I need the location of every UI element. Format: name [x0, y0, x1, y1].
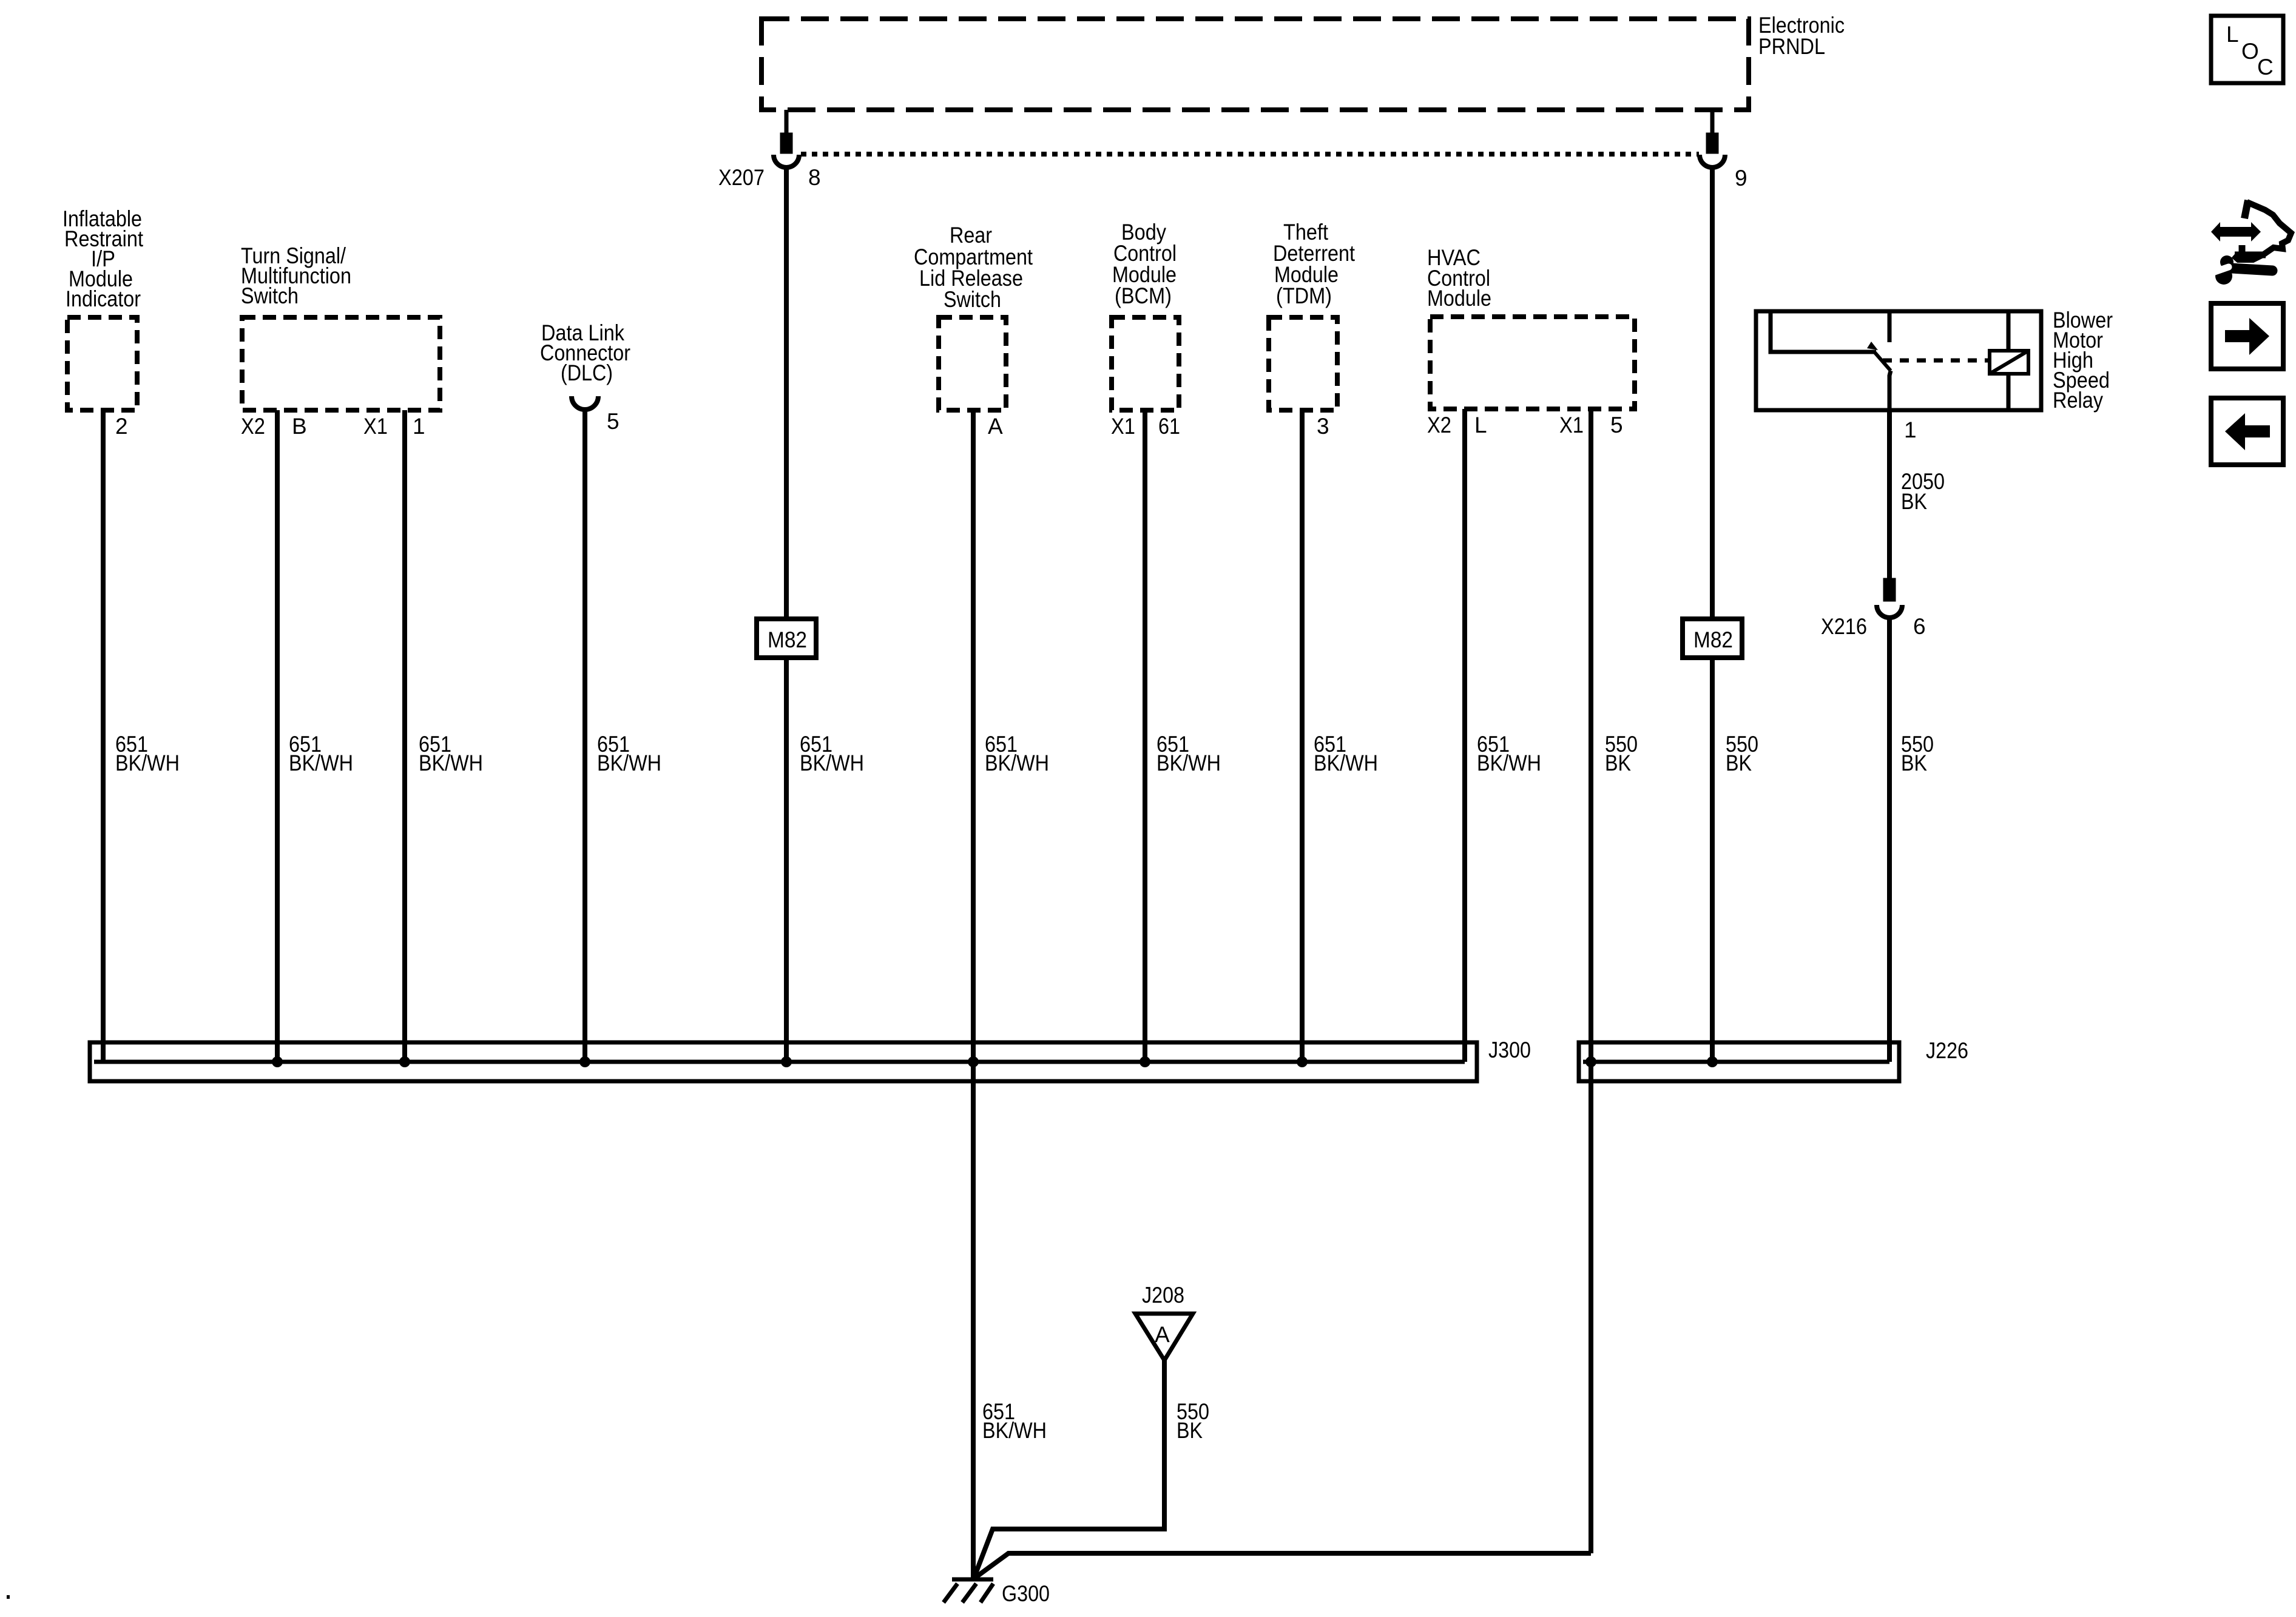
wire PRNDL pin 8 stub: [785, 110, 789, 136]
svg-text:BK/WH: BK/WH: [1477, 751, 1541, 775]
DLC female terminal arc: [572, 396, 598, 410]
wire Rear Compartment pin A down through J300 to G300: [971, 410, 976, 1578]
female terminal pin 9 arc: [1700, 155, 1725, 167]
relay switch blade: [1874, 352, 1891, 371]
wire TDM pin 3 to J300: [1300, 410, 1305, 1062]
svg-text:6: 6: [1913, 614, 1926, 639]
ground splice J208 triangle: [1135, 1314, 1193, 1360]
male terminal pin 8: [782, 135, 791, 152]
svg-text:J208: J208: [1142, 1283, 1184, 1308]
grommet M82 on X207-8 wire: [757, 619, 816, 658]
diagnostic icon lower bar: [2239, 245, 2246, 254]
splice pack J226 box: [1579, 1042, 1899, 1081]
legend box with left arrow: [2211, 398, 2283, 465]
wire 550 BK from PRNDL-9 down to J226: [1710, 167, 1715, 1062]
J300 internal bus line: [94, 1060, 1465, 1064]
svg-text:PRNDL: PRNDL: [1758, 34, 1825, 59]
wire 550 BK from J208 to G300: [974, 1360, 1164, 1578]
svg-text:BK/WH: BK/WH: [115, 751, 180, 775]
HVAC Control Module dashed box: [1430, 317, 1635, 409]
wire Turn Signal X1-1 to J300: [402, 410, 407, 1062]
wire DLC pin 5 to J300: [582, 411, 587, 1062]
male terminal X216 pin 6: [1885, 580, 1894, 599]
wire 550 BK from X216-6 to J226: [1887, 618, 1892, 1062]
diagnostic icon wrench: [2215, 255, 2234, 285]
svg-text:Relay: Relay: [2053, 388, 2103, 413]
wire segment from J226 to G300: [974, 1553, 1591, 1578]
svg-text:1: 1: [413, 414, 425, 439]
wire HVAC X2-L to J300: [1462, 409, 1467, 1062]
svg-text:BK: BK: [1177, 1418, 1203, 1443]
svg-text:(BCM): (BCM): [1115, 283, 1172, 308]
svg-text:BK/WH: BK/WH: [1156, 751, 1221, 775]
junction dot on J300 at x=1296: [781, 1056, 792, 1067]
wire HVAC X1-5 down through J226 toward G300: [1589, 409, 1593, 1553]
male terminal pin 9: [1708, 135, 1717, 152]
svg-text:3: 3: [1317, 414, 1329, 439]
wire relay pin 1: [1887, 410, 1892, 582]
female terminal X216 pin 6 arc: [1877, 605, 1902, 618]
svg-text:(DLC): (DLC): [561, 360, 613, 385]
wire PRNDL pin 9 stub: [1710, 110, 1715, 136]
svg-text:BK/WH: BK/WH: [985, 751, 1049, 775]
svg-text:O: O: [2241, 39, 2259, 64]
junction dot on J300 at x=964: [579, 1056, 590, 1067]
svg-text:9: 9: [1735, 166, 1747, 191]
svg-text:BK/WH: BK/WH: [982, 1418, 1047, 1443]
svg-text:B: B: [292, 414, 307, 439]
relay blade lower leg: [1889, 371, 1891, 410]
svg-text:BK/WH: BK/WH: [419, 751, 483, 775]
svg-text:2: 2: [115, 414, 128, 439]
svg-text:X2: X2: [1427, 413, 1451, 437]
svg-text:X1: X1: [1111, 414, 1135, 439]
svg-text:BK: BK: [1901, 751, 1927, 775]
svg-text:BK: BK: [1605, 751, 1631, 775]
svg-text:J226: J226: [1926, 1038, 1968, 1063]
legend box with right arrow: [2211, 303, 2283, 369]
svg-text:61: 61: [1158, 414, 1180, 439]
svg-text:L: L: [2226, 22, 2239, 47]
stray period bottom-left: [7, 1595, 10, 1599]
svg-text:J300: J300: [1488, 1038, 1531, 1062]
wire Turn Signal X2-B to J300: [275, 410, 280, 1062]
svg-text:BK/WH: BK/WH: [800, 751, 864, 775]
relay coil legs: [2007, 311, 2011, 351]
svg-text:X1: X1: [363, 414, 388, 439]
svg-text:X2: X2: [241, 414, 265, 439]
svg-text:BK/WH: BK/WH: [597, 751, 661, 775]
svg-text:BK: BK: [1901, 489, 1927, 514]
Blower Motor High Speed Relay box: [1756, 311, 2041, 410]
LOC legend box: [2211, 16, 2283, 83]
svg-text:BK/WH: BK/WH: [289, 751, 353, 775]
svg-text:M82: M82: [768, 627, 807, 652]
junction dot on J300 at x=667: [399, 1056, 410, 1067]
ground G300 symbol: [952, 1578, 993, 1582]
svg-text:X207: X207: [718, 165, 765, 190]
grommet M82 on PRNDL-9 wire: [1683, 619, 1742, 658]
BCM dashed box: [1112, 317, 1179, 410]
wire from Inflatable Restraint pin 2 to J300: [101, 410, 106, 1062]
svg-text:Switch: Switch: [944, 287, 1001, 312]
diagnostic icon connector outline: [2244, 200, 2248, 218]
female terminal X207 pin 8 arc: [774, 155, 799, 167]
svg-text:BK: BK: [1726, 751, 1752, 775]
junction dot on J300 at x=2146: [1297, 1056, 1308, 1067]
svg-text:5: 5: [607, 409, 620, 434]
svg-text:BK/WH: BK/WH: [1314, 751, 1378, 775]
splice pack J300 box: [90, 1042, 1477, 1081]
wire 651 BK/WH from X207-8 down to J300: [784, 167, 789, 1062]
svg-text:Switch: Switch: [241, 283, 299, 308]
junction dot on J300 at x=1604: [968, 1056, 979, 1067]
junction dot on J226 at x=2622: [1585, 1056, 1596, 1067]
Electronic PRNDL module dashed box: [761, 19, 1749, 110]
X207 in-line connector dotted line: [801, 152, 1699, 157]
relay top contact: [1888, 311, 1892, 342]
svg-text:M82: M82: [1693, 627, 1733, 652]
junction dot on J300 at x=1887: [1140, 1056, 1150, 1067]
relay common leg: [1771, 311, 1876, 352]
svg-text:X1: X1: [1559, 413, 1584, 437]
svg-text:Indicator: Indicator: [66, 286, 141, 311]
svg-text:C: C: [2257, 55, 2274, 79]
Turn Signal/Multifunction Switch dashed box: [242, 317, 440, 410]
relay coil box: [1990, 351, 2028, 374]
svg-text:1: 1: [1904, 417, 1917, 442]
svg-text:X216: X216: [1821, 614, 1867, 639]
wire BCM X1-61 to J300: [1143, 410, 1147, 1062]
svg-text:A: A: [988, 414, 1003, 439]
svg-text:5: 5: [1610, 413, 1623, 437]
svg-text:L: L: [1474, 413, 1487, 437]
relay actuating dashed line: [1883, 359, 1990, 363]
junction dot on J226 at x=2822: [1707, 1056, 1718, 1067]
svg-text:(TDM): (TDM): [1276, 283, 1332, 308]
svg-text:Rear: Rear: [950, 223, 992, 248]
svg-text:A: A: [1155, 1322, 1170, 1347]
svg-text:G300: G300: [1002, 1581, 1050, 1606]
svg-text:8: 8: [808, 165, 821, 190]
J226 internal bus line: [1583, 1060, 1889, 1064]
junction dot on J300 at x=457: [272, 1056, 283, 1067]
Rear Compartment Lid Release Switch dashed box: [939, 317, 1006, 410]
svg-text:Module: Module: [1427, 286, 1491, 311]
diagnostic icon double arrow: [2211, 222, 2261, 241]
Inflatable Restraint I/P Module Indicator dashed box: [67, 317, 137, 410]
TDM dashed box: [1269, 317, 1337, 410]
